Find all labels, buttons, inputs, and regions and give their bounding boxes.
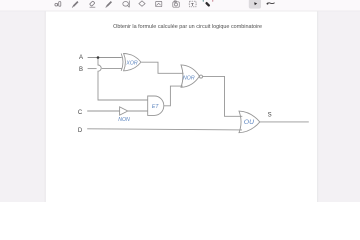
- wire OU output S: [260, 121, 309, 123]
- svg-text:C: C: [78, 110, 83, 116]
- svg-text:T: T: [191, 2, 194, 8]
- toolbar icon: pencil 2: [106, 2, 112, 8]
- canvas left border: [44, 11, 47, 202]
- junction dot on wire A: [97, 56, 100, 59]
- toolbar icon: pencil 1: [72, 2, 78, 8]
- svg-text:ET: ET: [152, 104, 159, 110]
- canvas right border: [316, 11, 319, 202]
- wire ET output to NOR bottom input: [164, 86, 183, 106]
- toolbar icon: shapes diamond: [139, 1, 145, 6]
- toolbar button gray: [249, 0, 261, 9]
- svg-text:S: S: [268, 113, 272, 119]
- svg-text:B: B: [79, 67, 83, 73]
- toolbar icon: eraser: [90, 1, 96, 7]
- toolbar icon: text box T: [189, 1, 197, 7]
- gate NOR body: [181, 65, 199, 87]
- gate OU body: [239, 111, 260, 133]
- toolbar icon: ink pen dark: [205, 2, 211, 8]
- gate ET body: [148, 96, 164, 115]
- wire B input right segment: [102, 68, 122, 70]
- toolbar icon: image: [156, 1, 162, 6]
- wire XOR output to NOR top input: [141, 62, 183, 73]
- wire C input: [87, 110, 119, 112]
- right gray panel: [318, 11, 360, 202]
- wire NON output to ET bottom input: [128, 110, 148, 112]
- gate XOR body: [124, 54, 141, 71]
- svg-text:D: D: [78, 128, 83, 134]
- app background: toolbar strip: [0, 0, 360, 11]
- svg-text:XOR: XOR: [125, 60, 137, 66]
- wire D input to OU bottom input: [87, 129, 242, 130]
- svg-text:NOR: NOR: [183, 75, 195, 81]
- left gray panel: [0, 11, 45, 202]
- toolbar icon: lasso select: [123, 1, 130, 8]
- svg-text:Obtenir la formule calculée pa: Obtenir la formule calculée par un circu…: [113, 24, 262, 30]
- toolbar icon: camera: [173, 1, 180, 7]
- gate NON triangle: [120, 107, 128, 115]
- svg-text:OU: OU: [244, 119, 254, 126]
- wire NOR output to OU top input: [203, 76, 243, 116]
- gate NOR bubble: [200, 75, 203, 78]
- wire branch A to ET with hop over B: [98, 58, 148, 101]
- wire B input left segment: [88, 68, 97, 70]
- svg-text:A: A: [79, 55, 83, 61]
- wire A input: [88, 57, 122, 59]
- toolbar icon: select a-box: [55, 2, 61, 7]
- gate XOR input arc: [121, 54, 123, 71]
- svg-text:NON: NON: [118, 117, 130, 123]
- toolbar bottom border: [0, 10, 360, 13]
- toolbar squiggle glyph: [267, 3, 275, 4]
